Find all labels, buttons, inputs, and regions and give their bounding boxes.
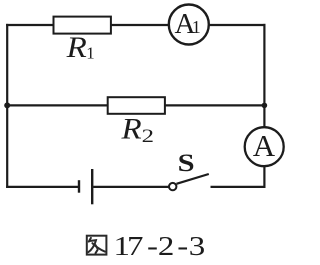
wire middle-left (junction to R2) bbox=[7, 104, 108, 106]
caption text 17-2-3 bbox=[114, 231, 206, 261]
svg-text:-: - bbox=[177, 231, 188, 261]
ammeter A1 bbox=[169, 5, 209, 45]
svg-text:-: - bbox=[147, 231, 158, 261]
svg-text:R: R bbox=[66, 31, 87, 64]
wire ammeter A to bottom-right corner bbox=[263, 166, 265, 188]
switch S contact circle bbox=[169, 183, 176, 190]
battery long plate (positive) bbox=[91, 169, 93, 204]
svg-text:2: 2 bbox=[158, 231, 174, 261]
svg-text:7: 7 bbox=[127, 231, 143, 261]
switch S blade bbox=[177, 174, 209, 184]
node junction left (middle wire meets left wire) bbox=[4, 102, 10, 108]
node junction right (middle wire meets right wire) bbox=[262, 103, 268, 109]
svg-text:1: 1 bbox=[192, 17, 201, 37]
resistor R2 bbox=[108, 97, 165, 114]
svg-text:R: R bbox=[120, 112, 141, 145]
battery short plate (negative) bbox=[78, 180, 80, 193]
svg-text:A: A bbox=[253, 128, 276, 163]
svg-text:1: 1 bbox=[86, 43, 95, 62]
label R2 bbox=[120, 112, 153, 146]
svg-text:2: 2 bbox=[142, 125, 154, 147]
wire right vertical (top corner to ammeter A) bbox=[263, 24, 265, 127]
caption character 图 (hand-drawn strokes) bbox=[87, 236, 107, 255]
wire A1 to top-right corner bbox=[209, 24, 266, 26]
label R1 bbox=[66, 31, 95, 64]
wire battery to switch bbox=[93, 186, 169, 188]
label A1 bbox=[175, 8, 201, 40]
wire R1 to A1 bbox=[111, 24, 170, 26]
svg-text:3: 3 bbox=[189, 231, 205, 261]
wire bottom-left (left corner to battery) bbox=[6, 186, 78, 188]
svg-text:S: S bbox=[178, 150, 195, 178]
wire top-left (corner to R1 left terminal) bbox=[6, 24, 53, 26]
wire left vertical (battery negative to top-left corner) bbox=[6, 24, 8, 188]
ammeter A bbox=[245, 127, 284, 166]
resistor R1 bbox=[54, 17, 111, 34]
wire middle-right (R2 to right junction) bbox=[165, 104, 265, 106]
wire bottom-right (corner to switch) bbox=[211, 186, 266, 188]
